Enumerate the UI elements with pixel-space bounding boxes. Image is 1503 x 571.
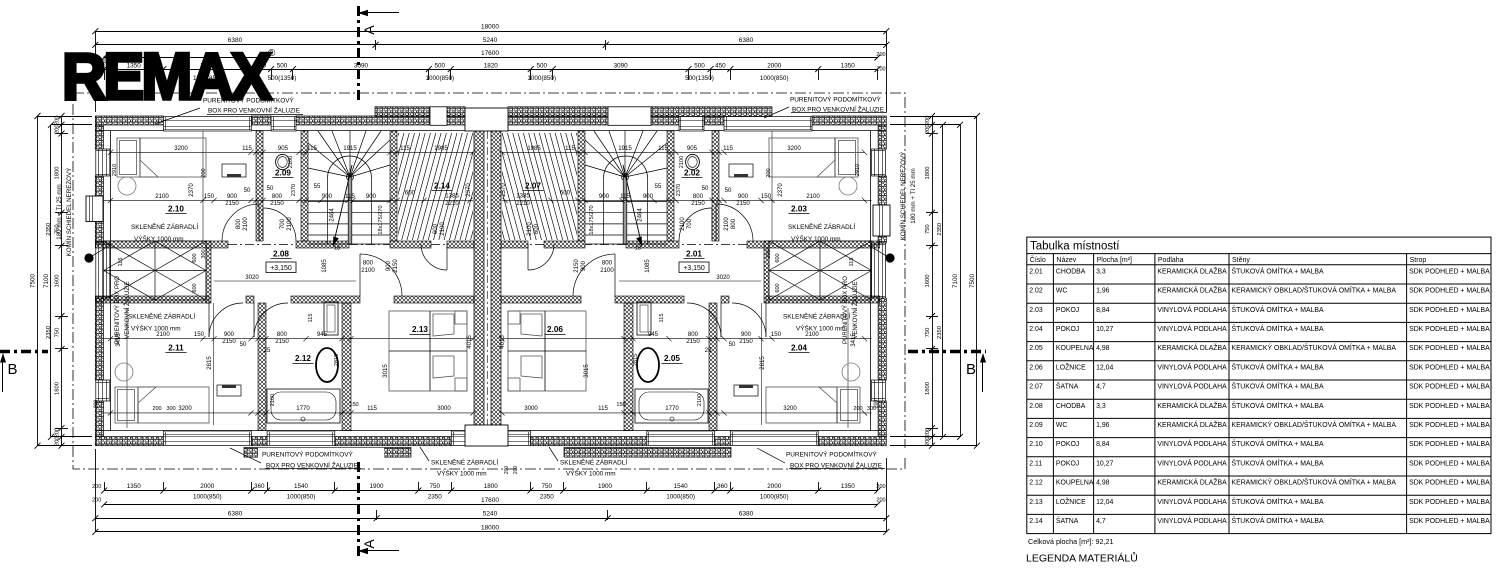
svg-text:115: 115 [345,193,355,200]
svg-text:3200: 3200 [783,405,797,412]
svg-text:600: 600 [775,283,781,292]
svg-text:7100: 7100 [952,274,959,289]
svg-text:150: 150 [349,402,358,408]
svg-text:200: 200 [876,52,885,58]
svg-text:2.01: 2.01 [686,250,702,259]
left exterior wall [95,125,103,149]
svg-text:1985: 1985 [434,145,448,152]
window (left wall) [96,149,110,176]
svg-text:115: 115 [367,405,377,412]
purenit note bottom-right [782,448,908,458]
svg-text:50: 50 [702,185,709,192]
purenit note bottom-left [258,448,384,458]
svg-text:1000(850): 1000(850) [527,75,556,82]
svg-text:PURENITOVÝ BOX PRO: PURENITOVÝ BOX PRO [842,276,849,344]
svg-text:B: B [7,361,17,378]
svg-text:2.05: 2.05 [1029,345,1043,352]
window (left wall) [96,243,110,298]
svg-text:3200: 3200 [787,145,801,152]
svg-text:600: 600 [192,253,198,262]
svg-text:905: 905 [687,145,698,152]
chimney box right wall [873,205,890,236]
svg-text:SDK PODHLED + MALBA: SDK PODHLED + MALBA [1409,460,1490,467]
svg-text:VÝŠKY 1000 mm: VÝŠKY 1000 mm [131,324,181,333]
svg-text:18: 18 [635,246,641,252]
svg-text:1085: 1085 [321,259,328,273]
svg-text:1350: 1350 [841,62,856,69]
svg-text:115: 115 [565,145,575,152]
svg-text:2.13: 2.13 [1029,499,1043,506]
svg-text:2210: 2210 [445,200,459,207]
svg-text:2.07: 2.07 [1029,384,1043,391]
svg-text:900: 900 [224,331,235,338]
svg-text:SDK PODHLED + MALBA: SDK PODHLED + MALBA [1409,345,1490,352]
svg-text:500: 500 [536,62,547,69]
svg-text:2.06: 2.06 [547,325,563,334]
svg-text:VINYLOVÁ PODLAHA: VINYLOVÁ PODLAHA [1157,305,1227,314]
svg-text:800: 800 [688,331,699,338]
svg-text:1900: 1900 [369,483,384,490]
svg-text:8,84: 8,84 [1096,441,1110,448]
svg-text:Název: Název [1056,257,1076,264]
svg-text:VINYLOVÁ PODLAHA: VINYLOVÁ PODLAHA [1157,439,1227,448]
window (right wall) [872,380,886,401]
svg-text:2.04: 2.04 [1029,326,1043,333]
bottom dimension chain 18000 [95,531,886,533]
svg-text:2.08: 2.08 [273,250,289,259]
left unit geometry [95,128,511,431]
svg-text:2150: 2150 [686,338,700,345]
svg-text:1000(850): 1000(850) [193,494,222,501]
svg-text:ŠATNA: ŠATNA [1056,382,1079,391]
svg-text:KERAMICKÁ DLAŽBA: KERAMICKÁ DLAŽBA [1157,478,1227,487]
svg-text:750: 750 [430,483,441,490]
window (top wall) [724,117,812,132]
svg-text:150: 150 [761,193,772,200]
svg-text:600: 600 [533,223,540,234]
svg-text:115: 115 [723,145,733,152]
svg-text:VÝŠKY 1000 mm: VÝŠKY 1000 mm [437,469,487,478]
leader dot right [885,253,894,262]
bottom dimension chain 17600 [104,504,877,506]
svg-text:1540: 1540 [294,483,309,490]
party wall gap centre line [487,131,489,425]
svg-text:SDK PODHLED + MALBA: SDK PODHLED + MALBA [1409,480,1490,487]
svg-text:4,98: 4,98 [1096,345,1110,352]
svg-text:300: 300 [766,249,772,258]
svg-text:900: 900 [385,260,392,271]
svg-text:150: 150 [616,402,625,408]
svg-text:1350: 1350 [127,483,142,490]
purenit box strip above top wall [375,107,430,117]
svg-text:18x175/270: 18x175/270 [589,205,595,234]
svg-text:2000: 2000 [767,62,782,69]
section marker A top [357,6,360,100]
svg-text:5240: 5240 [483,37,498,44]
svg-text:8,84: 8,84 [1096,307,1110,314]
svg-text:360: 360 [717,483,728,490]
section marker B left [0,350,48,353]
svg-text:2150: 2150 [225,200,239,207]
svg-text:500: 500 [277,62,288,69]
svg-text:1800: 1800 [484,483,499,490]
svg-text:2.13: 2.13 [412,325,428,334]
svg-text:900: 900 [227,193,238,200]
svg-text:4,7: 4,7 [1096,518,1106,525]
svg-text:3020: 3020 [245,274,259,281]
svg-text:SDK PODHLED + MALBA: SDK PODHLED + MALBA [1409,422,1490,429]
purenit box strip below bottom wall [244,448,411,458]
svg-text:900: 900 [580,260,587,271]
svg-text:905: 905 [278,145,289,152]
svg-text:ŠTUKOVÁ OMÍTKA + MALBA: ŠTUKOVÁ OMÍTKA + MALBA [1232,497,1324,506]
svg-text:1770: 1770 [296,405,310,412]
svg-text:POKOJ: POKOJ [1056,307,1079,314]
svg-text:150: 150 [204,193,215,200]
svg-text:Podlaha: Podlaha [1158,257,1184,264]
svg-text:PURENITOVÝ PODOMÍTKOVÝ: PURENITOVÝ PODOMÍTKOVÝ [262,450,354,459]
svg-text:VENKOVNÍ ŽALUZIE: VENKOVNÍ ŽALUZIE [123,281,131,338]
svg-text:1770: 1770 [665,405,679,412]
svg-text:2815: 2815 [759,356,766,370]
svg-text:200: 200 [853,406,862,412]
svg-text:1,96: 1,96 [1096,288,1110,295]
svg-text:2150: 2150 [275,338,289,345]
svg-text:3020: 3020 [716,274,730,281]
svg-text:12,04: 12,04 [1096,364,1113,371]
svg-text:3,3: 3,3 [1096,268,1106,275]
svg-text:2150: 2150 [691,200,705,207]
svg-text:750: 750 [925,224,931,234]
leader dot left [84,253,93,262]
svg-text:200: 200 [55,436,61,446]
svg-text:ŠTUKOVÁ OMÍTKA + MALBA: ŠTUKOVÁ OMÍTKA + MALBA [1232,516,1324,525]
svg-text:2350: 2350 [428,494,443,501]
svg-text:VINYLOVÁ PODLAHA: VINYLOVÁ PODLAHA [1157,497,1227,506]
svg-text:SDK PODHLED + MALBA: SDK PODHLED + MALBA [1409,499,1490,506]
svg-text:800: 800 [277,331,288,338]
svg-text:SDK PODHLED + MALBA: SDK PODHLED + MALBA [1409,403,1490,410]
svg-text:®: ® [268,48,276,59]
svg-text:+3,150: +3,150 [683,265,705,272]
svg-text:200: 200 [876,498,885,504]
right unit geometry (mirrored) [464,128,880,431]
level marker 2.01 [679,262,709,273]
level marker 2.08 [266,262,296,273]
svg-text:B: B [966,361,976,378]
svg-text:2100: 2100 [270,394,276,406]
svg-text:2100: 2100 [155,193,169,200]
svg-text:2.12: 2.12 [1029,480,1043,487]
svg-text:2.11: 2.11 [168,344,184,353]
svg-text:3,3: 3,3 [1096,403,1106,410]
svg-text:SKLENĚNÉ ZÁBRADLÍ: SKLENĚNÉ ZÁBRADLÍ [131,222,198,231]
svg-text:200: 200 [92,498,101,504]
svg-text:VINYLOVÁ PODLAHA: VINYLOVÁ PODLAHA [1157,382,1227,391]
svg-text:LOŽNICE: LOŽNICE [1056,497,1086,506]
svg-text:200: 200 [152,406,161,412]
svg-text:600: 600 [405,190,416,197]
svg-text:7500: 7500 [30,274,37,289]
svg-text:200: 200 [94,400,100,409]
svg-text:VÝŠKY 1000 mm: VÝŠKY 1000 mm [134,234,184,243]
svg-text:ŠATNA: ŠATNA [1056,516,1079,525]
svg-text:200: 200 [925,428,931,438]
svg-text:2100: 2100 [288,156,294,168]
window (right wall) [872,243,886,298]
svg-text:115: 115 [307,145,317,152]
svg-text:CHODBA: CHODBA [1056,403,1086,410]
svg-text:2150: 2150 [736,200,750,207]
svg-text:ŠTUKOVÁ OMÍTKA + MALBA: ŠTUKOVÁ OMÍTKA + MALBA [1232,439,1324,448]
svg-text:KERAMICKÝ OBKLAD/ŠTUKOVÁ OMÍTK: KERAMICKÝ OBKLAD/ŠTUKOVÁ OMÍTKA + MALBA [1232,343,1397,352]
svg-text:KERAMICKÝ OBKLAD/ŠTUKOVÁ OMÍTK: KERAMICKÝ OBKLAD/ŠTUKOVÁ OMÍTKA + MALBA [1232,420,1397,429]
svg-text:CHODBA: CHODBA [1056,268,1086,275]
svg-text:2370: 2370 [188,183,195,197]
svg-text:18000: 18000 [481,24,499,31]
left vertical dimension chains [61,116,63,446]
svg-text:2464: 2464 [329,208,336,222]
svg-text:18000: 18000 [481,524,499,531]
svg-text:900: 900 [643,193,654,200]
svg-text:1820: 1820 [484,62,499,69]
svg-text:KOMÍN SCHIEDEL NEREZOVÝ: KOMÍN SCHIEDEL NEREZOVÝ [900,152,907,240]
svg-text:3090: 3090 [614,62,629,69]
svg-text:900: 900 [599,193,610,200]
svg-text:200: 200 [513,466,519,475]
svg-text:2.07: 2.07 [525,182,541,191]
svg-text:200: 200 [92,484,101,490]
svg-text:800: 800 [693,193,704,200]
svg-text:2370: 2370 [465,183,472,197]
svg-text:115: 115 [658,145,668,152]
svg-text:200: 200 [925,116,931,126]
svg-text:4,7: 4,7 [1096,384,1106,391]
svg-text:ŠTUKOVÁ OMÍTKA + MALBA: ŠTUKOVÁ OMÍTKA + MALBA [1232,324,1324,333]
svg-text:1385: 1385 [445,193,459,200]
svg-text:25: 25 [705,347,712,354]
svg-text:3000: 3000 [437,405,451,412]
svg-text:2100: 2100 [806,193,820,200]
svg-text:PURENITOVÝ PODOMÍTKOVÝ: PURENITOVÝ PODOMÍTKOVÝ [790,95,882,104]
svg-text:7100: 7100 [43,274,50,289]
svg-text:900: 900 [322,193,333,200]
svg-text:PURENITOVÝ PODOMÍTKOVÝ: PURENITOVÝ PODOMÍTKOVÝ [786,450,878,459]
svg-text:2.02: 2.02 [1029,288,1043,295]
svg-text:6380: 6380 [739,511,754,518]
svg-text:KERAMICKÁ DLAŽBA: KERAMICKÁ DLAŽBA [1157,420,1227,429]
svg-text:1915: 1915 [343,145,357,152]
svg-text:800: 800 [272,193,283,200]
svg-text:115: 115 [620,193,630,200]
bottom exterior wall [95,437,163,446]
svg-text:5240: 5240 [483,511,498,518]
svg-text:300: 300 [201,249,207,258]
svg-text:18x175/270: 18x175/270 [378,205,384,234]
svg-text:1800: 1800 [55,382,61,395]
svg-text:SDK PODHLED + MALBA: SDK PODHLED + MALBA [1409,384,1490,391]
svg-text:2150: 2150 [270,200,284,207]
svg-text:2.09: 2.09 [275,169,291,178]
svg-text:SKLENĚNÉ ZÁBRADLÍ: SKLENĚNÉ ZÁBRADLÍ [431,458,498,467]
svg-text:900: 900 [366,193,377,200]
svg-text:VINYLOVÁ PODLAHA: VINYLOVÁ PODLAHA [1157,324,1227,333]
top dimension chain 18000 [95,31,886,33]
svg-text:SDK PODHLED + MALBA: SDK PODHLED + MALBA [1409,288,1490,295]
svg-text:1,96: 1,96 [1096,422,1110,429]
svg-text:1985: 1985 [527,145,541,152]
svg-text:115: 115 [308,314,314,323]
svg-text:ŠTUKOVÁ OMÍTKA + MALBA: ŠTUKOVÁ OMÍTKA + MALBA [1232,382,1324,391]
svg-text:2.09: 2.09 [1029,422,1043,429]
svg-text:50: 50 [725,187,732,194]
svg-text:KOUPELNA: KOUPELNA [1056,345,1094,352]
svg-text:Strop: Strop [1410,257,1427,264]
svg-text:3000: 3000 [524,405,538,412]
svg-text:ŠTUKOVÁ OMÍTKA + MALBA: ŠTUKOVÁ OMÍTKA + MALBA [1232,266,1324,275]
svg-text:ŠTUKOVÁ OMÍTKA + MALBA: ŠTUKOVÁ OMÍTKA + MALBA [1232,458,1324,467]
svg-text:2910: 2910 [855,164,861,176]
chimney box left wall [86,196,103,222]
svg-text:6380: 6380 [228,511,243,518]
svg-text:50: 50 [244,187,251,194]
svg-text:945: 945 [317,331,328,338]
svg-text:2100: 2100 [679,217,686,231]
svg-text:2.12: 2.12 [295,354,311,363]
svg-text:2.08: 2.08 [1029,403,1043,410]
svg-text:3015: 3015 [583,364,590,378]
svg-text:KERAMICKÝ OBKLAD/ŠTUKOVÁ OMÍTK: KERAMICKÝ OBKLAD/ŠTUKOVÁ OMÍTKA + MALBA [1232,478,1397,487]
svg-text:ŠTUKOVÁ OMÍTKA + MALBA: ŠTUKOVÁ OMÍTKA + MALBA [1232,362,1324,371]
svg-text:SDK PODHLED + MALBA: SDK PODHLED + MALBA [1409,307,1490,314]
window (right wall) [872,149,886,176]
svg-text:VINYLOVÁ PODLAHA: VINYLOVÁ PODLAHA [1157,516,1227,525]
svg-text:115: 115 [118,258,124,267]
svg-text:KOMÍN SCHIEDEL NEREZOVÝ: KOMÍN SCHIEDEL NEREZOVÝ [66,168,73,256]
svg-text:2350: 2350 [46,223,52,236]
svg-text:600: 600 [192,283,198,292]
svg-text:10,27: 10,27 [1096,460,1113,467]
svg-text:200: 200 [874,400,880,409]
svg-text:REMAX: REMAX [62,39,272,113]
svg-text:150: 150 [771,331,782,338]
svg-text:2.03: 2.03 [1029,307,1043,314]
svg-text:VINYLOVÁ PODLAHA: VINYLOVÁ PODLAHA [1157,458,1227,467]
svg-text:2100: 2100 [361,267,375,274]
svg-text:1600: 1600 [925,275,931,288]
svg-text:SDK PODHLED + MALBA: SDK PODHLED + MALBA [1409,326,1490,333]
svg-text:2100: 2100 [600,267,614,274]
window (bottom wall) [451,431,530,446]
svg-text:POKOJ: POKOJ [1056,326,1079,333]
svg-text:1350: 1350 [841,483,856,490]
window (left wall) [96,380,110,401]
svg-text:700: 700 [279,218,286,229]
svg-text:180 mm + TI 25 mm: 180 mm + TI 25 mm [910,168,917,223]
svg-text:SDK PODHLED + MALBA: SDK PODHLED + MALBA [1409,268,1490,275]
svg-text:200: 200 [766,168,772,177]
svg-text:500: 500 [435,62,446,69]
svg-text:2100: 2100 [242,217,249,231]
svg-text:50: 50 [267,185,274,192]
svg-text:2150: 2150 [739,338,753,345]
svg-text:Číslo: Číslo [1030,255,1046,264]
svg-text:800: 800 [602,260,613,267]
svg-text:4,98: 4,98 [1096,480,1110,487]
svg-text:750: 750 [542,483,553,490]
svg-text:SDK PODHLED + MALBA: SDK PODHLED + MALBA [1409,364,1490,371]
svg-text:2.02: 2.02 [684,169,700,178]
svg-text:200: 200 [55,124,61,134]
svg-text:WC: WC [1056,422,1068,429]
svg-text:200: 200 [55,116,61,126]
svg-text:VENKOVNÍ ŽALUZIE: VENKOVNÍ ŽALUZIE [851,281,859,338]
svg-text:115: 115 [598,405,608,412]
svg-text:2370: 2370 [777,183,784,197]
svg-text:KERAMICKÝ OBKLAD/ŠTUKOVÁ OMÍTK: KERAMICKÝ OBKLAD/ŠTUKOVÁ OMÍTKA + MALBA [1232,286,1397,295]
svg-text:600: 600 [560,190,571,197]
svg-text:2370: 2370 [291,184,297,196]
svg-text:4015: 4015 [466,335,473,349]
svg-text:2100: 2100 [697,394,703,406]
svg-text:VINYLOVÁ PODLAHA: VINYLOVÁ PODLAHA [1157,362,1227,371]
svg-text:POKOJ: POKOJ [1056,460,1079,467]
svg-text:POKOJ: POKOJ [1056,441,1079,448]
svg-text:115: 115 [400,145,410,152]
bottom dimension chain 6380/5240/6380 [95,518,886,520]
svg-text:115: 115 [659,314,665,323]
svg-text:450: 450 [715,62,726,69]
section marker A bottom [357,462,360,558]
svg-text:800: 800 [730,218,737,229]
window (top wall) [271,117,296,132]
top dimension chain detailed [104,69,877,71]
svg-text:600: 600 [775,253,781,262]
svg-text:500(1350): 500(1350) [685,75,714,82]
svg-text:Tabulka místností: Tabulka místností [1030,241,1120,253]
svg-text:2.14: 2.14 [1029,518,1043,525]
svg-text:2100: 2100 [286,217,293,231]
svg-text:200: 200 [55,428,61,438]
svg-text:180 mm + TI 25 mm: 180 mm + TI 25 mm [56,184,63,239]
svg-text:SKLENĚNÉ ZÁBRADLÍ: SKLENĚNÉ ZÁBRADLÍ [788,222,855,231]
svg-text:150: 150 [194,331,205,338]
svg-text:1600: 1600 [55,275,61,288]
window (top wall) [163,117,251,132]
svg-text:1085: 1085 [644,259,651,273]
svg-text:A: A [361,539,377,549]
svg-text:SKLENĚNÉ ZÁBRADLÍ: SKLENĚNÉ ZÁBRADLÍ [560,458,627,467]
window (bottom wall) [647,431,715,446]
top extension lines [95,31,97,112]
room table [1027,237,1491,533]
svg-text:2100: 2100 [679,156,685,168]
svg-text:SDK PODHLED + MALBA: SDK PODHLED + MALBA [1409,441,1490,448]
svg-text:2000: 2000 [200,483,215,490]
svg-text:Stěny: Stěny [1232,257,1250,264]
svg-text:1000(850): 1000(850) [425,75,454,82]
svg-text:50: 50 [729,341,736,348]
svg-text:3015: 3015 [382,364,389,378]
svg-text:2100: 2100 [439,222,446,236]
right exterior wall [878,125,886,149]
window (bottom wall) [163,431,251,446]
svg-text:2210: 2210 [516,200,530,207]
svg-text:2000: 2000 [767,483,782,490]
svg-text:2.14: 2.14 [434,182,450,191]
svg-text:KERAMICKÁ DLAŽBA: KERAMICKÁ DLAŽBA [1157,286,1227,295]
svg-text:115: 115 [849,258,855,267]
